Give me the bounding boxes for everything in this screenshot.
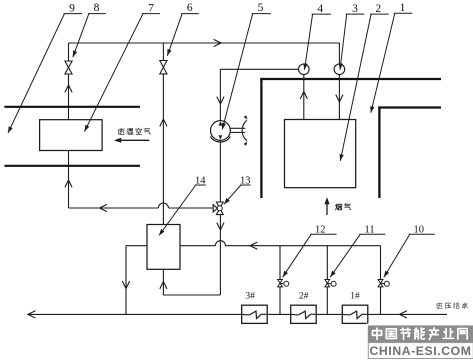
svg-text:2#: 2#: [299, 291, 309, 301]
svg-text:1#: 1#: [350, 291, 360, 301]
svg-text:4: 4: [317, 3, 323, 15]
svg-text:9: 9: [69, 3, 75, 15]
svg-text:1: 1: [400, 2, 406, 14]
svg-text:7: 7: [148, 3, 154, 15]
svg-text:3: 3: [352, 3, 358, 15]
svg-text:3#: 3#: [245, 291, 255, 301]
svg-text:6: 6: [187, 2, 193, 14]
svg-text:5: 5: [258, 2, 264, 14]
svg-text:2: 2: [375, 3, 381, 15]
svg-text:8: 8: [94, 2, 100, 14]
svg-text:CHINA-ESI.COM: CHINA-ESI.COM: [370, 344, 472, 358]
